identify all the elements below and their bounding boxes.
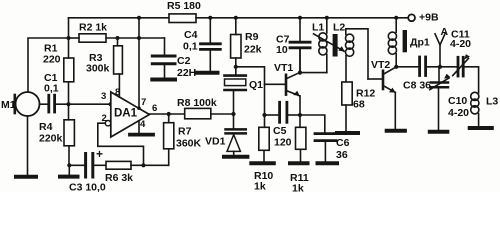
wire M1 bottom lead xyxy=(27,116,29,175)
resistor R9 xyxy=(231,35,241,59)
wire pin 7 riser xyxy=(138,18,140,108)
svg-text:1k: 1k xyxy=(292,183,304,193)
wire top supply rail left of R5 xyxy=(69,17,170,19)
resistor R2 xyxy=(79,34,106,42)
resistor R12 xyxy=(342,82,352,105)
svg-text:22H: 22H xyxy=(177,67,196,79)
wire R9 top lead xyxy=(235,18,237,35)
svg-text:36: 36 xyxy=(336,149,348,161)
wire R6 right lead xyxy=(131,164,169,166)
wire vertical from rail corner down to R2 node xyxy=(68,18,70,38)
svg-text:L2: L2 xyxy=(333,22,345,34)
node R4 C3 ground junction xyxy=(67,163,71,167)
svg-text:C5: C5 xyxy=(273,125,287,137)
wire R9 node to VT1 base corner xyxy=(236,67,265,115)
op-amp DA1 xyxy=(111,92,150,137)
svg-text:+9В: +9В xyxy=(419,12,439,24)
trimmer arrow through L1 xyxy=(314,34,345,51)
svg-text:VT1: VT1 xyxy=(274,62,293,74)
svg-text:7: 7 xyxy=(141,97,146,108)
capacitor C6 xyxy=(315,132,336,135)
inductor L2 xyxy=(346,29,368,79)
resistor R1 xyxy=(64,58,74,82)
svg-text:VT2: VT2 xyxy=(371,59,390,71)
node C1 R1 R4 junction xyxy=(66,102,70,106)
svg-text:1k: 1k xyxy=(254,181,266,193)
node C4 rail junction xyxy=(208,16,212,20)
svg-text:C2: C2 xyxy=(177,55,191,67)
wire collector node to L1 bottom xyxy=(300,72,327,74)
varcap C11 xyxy=(457,57,460,76)
ground C2 xyxy=(152,78,175,82)
quartz Q1 xyxy=(235,67,237,75)
varcap C10 xyxy=(438,67,440,82)
node emitter C5 R11 junction xyxy=(298,113,302,117)
node VT2 collector junction xyxy=(394,65,398,69)
node Dr1 rail junction xyxy=(394,16,398,20)
transistor VT1 emitter arrow xyxy=(293,91,300,96)
svg-text:R5 180: R5 180 xyxy=(167,0,201,12)
svg-text:VD1: VD1 xyxy=(205,136,226,148)
ground C4 xyxy=(197,71,217,75)
wire R4 bottom lead xyxy=(68,146,70,166)
svg-text:300k: 300k xyxy=(86,63,110,75)
svg-text:L1: L1 xyxy=(312,22,324,34)
capacitor C7 xyxy=(299,18,301,41)
node VT1 collector junction xyxy=(298,71,302,75)
svg-text:2: 2 xyxy=(102,113,107,124)
wire top supply rail right of R5 xyxy=(196,17,408,19)
ground R4 C3 node xyxy=(60,175,78,179)
wire R3 top lead xyxy=(117,38,119,46)
svg-text:R8 100k: R8 100k xyxy=(177,97,217,109)
transistor VT2 emitter arrow xyxy=(389,88,396,93)
transistor VT2 emitter xyxy=(384,86,396,92)
svg-text:68: 68 xyxy=(353,99,365,111)
wire junction to ground xyxy=(68,165,70,175)
ground DA1 pin4 xyxy=(130,133,153,137)
wire C3 to R6 xyxy=(94,164,106,166)
wire R4 top lead xyxy=(68,104,70,120)
transistor VT1 emitter xyxy=(287,91,300,96)
ground R11 xyxy=(290,161,308,165)
node C7 rail junction xyxy=(298,16,302,20)
wire R1 top lead xyxy=(68,38,70,58)
ground C10 xyxy=(430,130,448,134)
wire R8 right lead xyxy=(211,113,234,115)
wire VT1 emitter down xyxy=(299,96,301,115)
svg-text:22k: 22k xyxy=(244,44,262,56)
svg-text:Др1: Др1 xyxy=(410,37,430,49)
node DA1 output junction xyxy=(167,112,171,116)
svg-text:C6: C6 xyxy=(336,137,350,149)
wire R10 top lead xyxy=(264,115,266,127)
resistor R5 xyxy=(169,14,196,23)
ground L3 xyxy=(470,126,492,130)
svg-text:4-20: 4-20 xyxy=(448,107,469,119)
svg-text:0,1: 0,1 xyxy=(183,41,198,53)
svg-text:4-20: 4-20 xyxy=(450,38,471,50)
capacitor C2 xyxy=(164,38,166,55)
varicap VD1 xyxy=(226,128,246,131)
ground R10 xyxy=(251,161,273,165)
ground R12 xyxy=(337,131,358,135)
svg-text:A: A xyxy=(441,26,449,38)
node R3 top junction xyxy=(116,36,120,40)
capacitor C8 xyxy=(418,57,421,76)
svg-text:C8 36: C8 36 xyxy=(403,80,431,92)
wire R12 bottom lead xyxy=(345,105,347,131)
svg-text:R6 3k: R6 3k xyxy=(105,172,133,184)
resistor R4 xyxy=(64,120,74,146)
wire R9 bottom lead xyxy=(235,58,237,67)
node C5 left R10 junction xyxy=(262,113,266,117)
svg-text:C3 10,0: C3 10,0 xyxy=(69,182,106,193)
core L1 L2 xyxy=(333,34,338,57)
node pin7 riser junction xyxy=(137,36,141,40)
svg-text:C10: C10 xyxy=(448,95,467,107)
svg-text:220: 220 xyxy=(43,54,61,66)
wire VT2 base lead xyxy=(368,78,382,80)
svg-text:L3: L3 xyxy=(486,96,498,108)
transistor VT1 collector xyxy=(287,72,300,78)
wire C11 to L3 xyxy=(465,67,479,93)
wire emitter node to C6 xyxy=(300,115,325,132)
resistor R6 xyxy=(106,161,131,169)
ground M1 xyxy=(16,175,36,179)
transistor VT2 collector xyxy=(384,67,397,74)
node pin7 at slope xyxy=(137,106,141,110)
wire R11 top lead xyxy=(299,115,301,127)
op-amp DA1 pin2 inversion bubble xyxy=(105,121,110,126)
svg-text:4: 4 xyxy=(140,119,146,130)
wire microphone supply branch xyxy=(28,38,69,92)
capacitor C3 electrolytic xyxy=(84,154,87,178)
svg-text:10: 10 xyxy=(276,44,288,56)
core Dr1 xyxy=(403,30,407,52)
transistor VT2 base bar xyxy=(382,71,385,89)
svg-text:M1: M1 xyxy=(1,99,16,111)
resistor R7 xyxy=(164,123,174,149)
node R2 left junction xyxy=(67,36,71,40)
transistor VT1 base bar xyxy=(285,75,288,95)
svg-text:R4: R4 xyxy=(39,121,53,133)
wire feedback riser to pin2 xyxy=(98,123,144,165)
resistor R10 xyxy=(259,127,269,150)
svg-text:Q1: Q1 xyxy=(249,79,263,91)
node R9 Q1 junction xyxy=(234,65,238,69)
wire C1 to pin 3 xyxy=(56,103,111,105)
wire R10 bottom lead xyxy=(263,150,265,161)
wire R11 bottom lead xyxy=(300,149,302,161)
svg-text:DA1: DA1 xyxy=(114,108,138,120)
svg-text:8: 8 xyxy=(115,87,120,98)
svg-text:R7: R7 xyxy=(178,126,192,138)
wire R7 top lead xyxy=(168,114,170,123)
choke Dr1 xyxy=(395,18,397,33)
capacitor C1 xyxy=(47,95,50,112)
inductor L3 xyxy=(471,92,479,100)
svg-text:220k: 220k xyxy=(39,133,63,145)
svg-text:360K: 360K xyxy=(176,138,202,150)
node antenna junction xyxy=(438,65,442,69)
svg-text:3: 3 xyxy=(101,91,106,102)
svg-text:6: 6 xyxy=(152,103,157,114)
ground C6 xyxy=(318,161,338,165)
wire node to C3 xyxy=(69,164,84,166)
capacitor C5 xyxy=(265,114,279,116)
node +9V terminal xyxy=(408,14,415,21)
node pin3 at DA1 edge xyxy=(109,102,113,106)
node rail junction above pin7 xyxy=(137,16,141,20)
node L1 rail junction xyxy=(325,16,329,20)
wire DA1 output pin 6 xyxy=(149,113,184,115)
microphone M1 xyxy=(16,92,40,116)
ground VD1 xyxy=(224,155,247,159)
microphone M1 membrane bar xyxy=(14,95,17,113)
svg-text:R9: R9 xyxy=(245,31,259,43)
wire VT1 base lead xyxy=(265,83,286,85)
wire VT2 collector to C8 xyxy=(396,66,418,68)
wire C8 to antenna node xyxy=(427,66,457,68)
node R6 right junction xyxy=(141,163,145,167)
wire R1 bottom lead xyxy=(68,82,70,104)
wire M1 to C1 xyxy=(40,103,48,105)
wire R2 left lead xyxy=(69,37,80,39)
capacitor C4 xyxy=(209,18,211,43)
wire R7 bottom lead xyxy=(168,149,170,166)
node R8 Q1 VD1 junction xyxy=(231,112,235,116)
svg-text:R2 1k: R2 1k xyxy=(79,22,107,34)
ground VT2 emitter xyxy=(387,129,405,133)
inductor L1 xyxy=(326,18,328,33)
resistor R3 xyxy=(114,46,123,74)
node R9 rail junction xyxy=(234,16,238,20)
wire R2 right to C2 corner xyxy=(106,37,165,39)
svg-text:120: 120 xyxy=(274,137,292,149)
resistor R11 xyxy=(296,127,306,149)
wire VT2 emitter down xyxy=(394,92,396,129)
svg-text:C4: C4 xyxy=(184,29,198,41)
svg-text:+: + xyxy=(96,147,103,161)
resistor R8 xyxy=(185,108,211,118)
wire pin 4 lead xyxy=(138,121,140,133)
svg-text:0,1: 0,1 xyxy=(44,83,59,95)
antenna A xyxy=(435,34,445,67)
wire VT1 collector riser xyxy=(299,49,301,72)
wire R3 to pin 8 xyxy=(118,74,120,97)
